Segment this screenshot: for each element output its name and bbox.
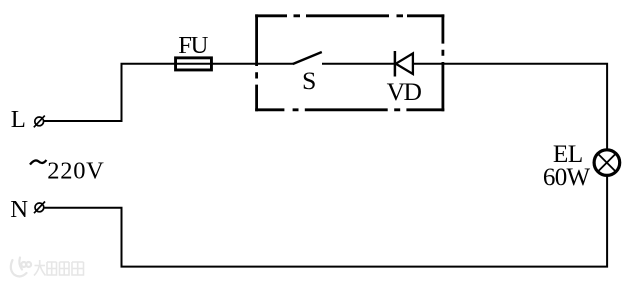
right edge xyxy=(441,14,444,111)
diode VD xyxy=(395,51,413,77)
wire from lamp down and along bottom to N terminal xyxy=(44,175,607,266)
svg-text:N: N xyxy=(10,196,28,223)
svg-text:FU: FU xyxy=(178,32,208,59)
wire from switch to diode xyxy=(322,63,395,65)
wire from L terminal to fuse (up-right path) xyxy=(44,64,175,121)
label ~220V xyxy=(30,158,105,185)
watermark text (faint) xyxy=(34,260,84,276)
fuse FU xyxy=(176,58,212,70)
enclosure dash-dot box xyxy=(255,14,444,111)
svg-text:L: L xyxy=(11,106,26,133)
svg-text:220V: 220V xyxy=(47,158,104,185)
node N terminal xyxy=(34,202,45,214)
top edge xyxy=(255,14,444,17)
svg-text:S: S xyxy=(302,66,316,95)
lamp EL xyxy=(594,150,620,176)
left edge xyxy=(255,14,258,111)
wire from diode to lamp (right side) xyxy=(413,64,607,150)
watermark logo (faint) xyxy=(11,258,31,277)
bottom edge xyxy=(255,108,444,111)
wire through fuse to switch xyxy=(175,63,294,65)
svg-text:60W: 60W xyxy=(543,164,591,191)
node L terminal xyxy=(34,116,45,128)
svg-text:VD: VD xyxy=(387,77,422,106)
switch S lever (open contact) xyxy=(293,52,322,64)
